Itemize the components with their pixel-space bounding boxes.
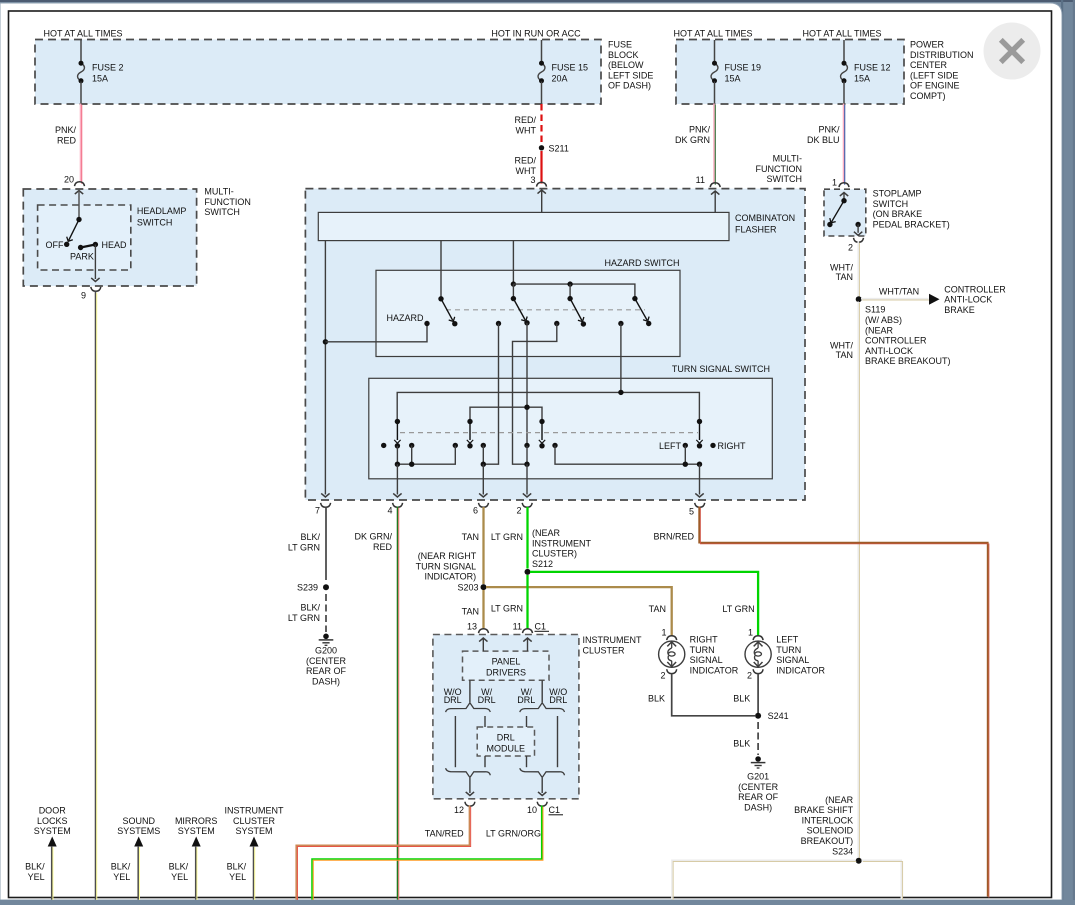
svg-text:HAZARD SWITCH: HAZARD SWITCH	[605, 258, 680, 268]
svg-text:C1: C1	[535, 622, 547, 632]
svg-text:TAN/RED: TAN/RED	[425, 829, 464, 839]
svg-text:SYSTEM: SYSTEM	[178, 826, 215, 836]
hazard pole 2 feed	[512, 241, 514, 285]
wire hazard contact to turn sw (x498)	[483, 324, 498, 465]
splice S212	[525, 569, 531, 575]
svg-text:BLK/: BLK/	[300, 532, 320, 542]
svg-text:20: 20	[64, 175, 74, 185]
hazard pole 4	[632, 296, 637, 301]
svg-text:BLK/: BLK/	[169, 862, 189, 872]
svg-text:15A: 15A	[725, 74, 741, 84]
svg-text:PNK/: PNK/	[818, 125, 840, 135]
turn sw bottom wire A	[396, 446, 398, 464]
svg-text:YEL: YEL	[113, 872, 130, 882]
svg-text:6: 6	[473, 506, 478, 516]
svg-text:WHT/TAN: WHT/TAN	[879, 287, 919, 297]
svg-text:OF ENGINE: OF ENGINE	[910, 81, 960, 91]
svg-text:FUSE: FUSE	[608, 40, 632, 50]
svg-text:INDICATOR: INDICATOR	[776, 665, 825, 675]
wire BLK S241 to G201 dashed	[757, 722, 759, 755]
branch wires	[454, 716, 456, 767]
svg-text:TAN: TAN	[836, 272, 853, 282]
turn sw top bus	[397, 392, 699, 421]
svg-text:DRIVERS: DRIVERS	[486, 668, 526, 678]
svg-text:LEFT: LEFT	[659, 441, 682, 451]
svg-text:REAR OF: REAR OF	[738, 792, 779, 802]
svg-text:DRL: DRL	[444, 695, 462, 705]
turn sw blade at x=397.4	[395, 419, 400, 424]
stoplamp switch box	[824, 189, 866, 236]
wire TAN/RED pin12 down-left	[296, 806, 469, 900]
svg-text:1: 1	[832, 178, 837, 188]
svg-text:OF DASH): OF DASH)	[608, 81, 651, 91]
connector pin 2	[522, 503, 532, 507]
svg-text:S241: S241	[768, 711, 789, 721]
wire LT GRN S212 to left turn signal indicator	[530, 572, 758, 636]
wire WHT/TAN stoplamp to S119	[857, 242, 859, 297]
svg-text:DRL: DRL	[549, 695, 567, 705]
svg-text:BLK: BLK	[648, 694, 665, 704]
svg-text:7: 7	[315, 506, 320, 516]
wire TAN pin6 to S203	[482, 507, 484, 584]
headlamp switch contacts	[75, 191, 83, 195]
svg-text:LT GRN: LT GRN	[491, 604, 523, 614]
svg-text:2: 2	[660, 671, 665, 681]
wire HEAD to pin 9	[94, 245, 96, 280]
stoplamp switch internals	[840, 193, 848, 197]
connector stoplamp pin 1	[839, 183, 849, 187]
left turn signal indicator lamp	[753, 636, 763, 640]
svg-text:2: 2	[848, 243, 853, 253]
svg-text:SIGNAL: SIGNAL	[776, 655, 809, 665]
svg-text:OFF: OFF	[46, 240, 64, 250]
svg-text:MULTI-: MULTI-	[204, 187, 233, 197]
svg-text:(CENTER: (CENTER	[306, 656, 346, 666]
svg-text:BLK/: BLK/	[227, 862, 247, 872]
svg-text:(ON BRAKE: (ON BRAKE	[873, 209, 923, 219]
svg-text:REAR OF: REAR OF	[306, 666, 347, 676]
svg-text:S234: S234	[832, 846, 853, 856]
connector pin 7	[321, 503, 331, 507]
turn sw contact row	[381, 443, 386, 448]
wire RED/WHT (fuse15 to splice S211) dashed	[540, 104, 542, 144]
svg-text:BRN/RED: BRN/RED	[653, 532, 694, 542]
headlamp switch box	[38, 205, 131, 270]
svg-text:DASH): DASH)	[744, 802, 772, 812]
svg-text:CLUSTER): CLUSTER)	[532, 549, 577, 559]
svg-text:CLUSTER: CLUSTER	[583, 645, 626, 655]
svg-text:4: 4	[387, 506, 392, 516]
svg-text:FUSE 2: FUSE 2	[92, 63, 124, 73]
fuse F15 20A	[541, 40, 543, 62]
splice S203	[481, 584, 487, 590]
svg-text:DASH): DASH)	[312, 676, 340, 686]
svg-text:BRAKE: BRAKE	[944, 305, 975, 315]
svg-text:CLUSTER: CLUSTER	[233, 816, 276, 826]
svg-text:(LEFT SIDE: (LEFT SIDE	[910, 70, 958, 80]
svg-text:HOT AT ALL TIMES: HOT AT ALL TIMES	[673, 29, 752, 39]
svg-text:(BELOW: (BELOW	[608, 60, 644, 70]
wire BLK/LT GRN S239 to G200 (dashed)	[325, 594, 327, 632]
svg-text:DK BLU: DK BLU	[807, 135, 840, 145]
svg-text:SWITCH: SWITCH	[204, 207, 240, 217]
right turn signal indicator lamp	[667, 636, 677, 640]
wire BLK right lamp to S241	[672, 674, 755, 716]
svg-text:13: 13	[467, 622, 477, 632]
wire pin3 to flasher	[538, 190, 546, 194]
multi-function switch box (main)	[305, 189, 805, 500]
wire TAN S203 to right turn signal indicator	[486, 587, 672, 636]
svg-text:RED/: RED/	[514, 156, 536, 166]
svg-text:SOUND: SOUND	[122, 816, 155, 826]
wire LT GRN S212 to cluster pin 11	[526, 575, 528, 629]
svg-text:SYSTEM: SYSTEM	[235, 826, 272, 836]
svg-text:1: 1	[748, 628, 753, 638]
svg-text:FUNCTION: FUNCTION	[756, 164, 803, 174]
stoplamp pin 2 exit	[857, 225, 859, 233]
connector pin 20	[75, 182, 85, 186]
svg-text:LT GRN: LT GRN	[288, 613, 320, 623]
wire PNK/DK BLU (fuse12 to stoplamp pin 1)	[843, 104, 845, 184]
svg-text:S203: S203	[457, 583, 478, 593]
svg-text:20A: 20A	[552, 74, 568, 84]
splice S241	[755, 713, 761, 719]
DRL module box	[477, 727, 534, 756]
svg-text:RIGHT: RIGHT	[718, 441, 747, 451]
wire BLK left lamp to S241	[757, 674, 759, 716]
svg-text:(W/ ABS): (W/ ABS)	[865, 315, 902, 325]
wire hazard blade2 contact down to turn row (x527)	[526, 323, 528, 446]
svg-text:SWITCH: SWITCH	[873, 199, 909, 209]
svg-text:DOOR: DOOR	[39, 806, 67, 816]
wire WHT/TAN S119 down to S234	[857, 302, 859, 858]
fuse F12 15A	[843, 40, 845, 62]
wire pin11 to flasher	[711, 191, 719, 195]
svg-text:BLK/: BLK/	[300, 603, 320, 613]
split brace right	[520, 703, 565, 712]
arrow to controller anti-lock brake	[929, 294, 940, 305]
svg-text:FUSE 15: FUSE 15	[552, 63, 589, 73]
svg-text:(NEAR: (NEAR	[865, 325, 894, 335]
svg-text:(NEAR RIGHT: (NEAR RIGHT	[418, 551, 477, 561]
ground G201	[755, 756, 761, 762]
svg-text:DRL: DRL	[517, 695, 535, 705]
wire flasher to pin 7 (left drop)	[324, 241, 326, 495]
svg-text:15A: 15A	[92, 74, 108, 84]
cluster output arrows	[469, 778, 471, 793]
turn sw blade at x=699.5	[697, 419, 702, 424]
output arrows to pins 4,6,2,5	[396, 464, 398, 494]
svg-text:CONTROLLER: CONTROLLER	[865, 336, 927, 346]
connector pin 11 C1	[523, 629, 533, 633]
svg-text:CENTER: CENTER	[910, 60, 948, 70]
hazard pole 2	[511, 296, 516, 301]
svg-text:BLK/: BLK/	[111, 862, 131, 872]
svg-text:DK GRN: DK GRN	[675, 135, 710, 145]
svg-text:FUSE 12: FUSE 12	[854, 63, 891, 73]
turn signal switch box	[369, 378, 773, 479]
instrument cluster box	[433, 635, 579, 799]
svg-text:INTERLOCK: INTERLOCK	[802, 815, 854, 825]
svg-text:PEDAL BRACKET): PEDAL BRACKET)	[873, 219, 950, 229]
turn sw bottom wire C	[526, 446, 528, 464]
wire LT GRN/ORG pin10 down-left	[312, 806, 542, 900]
merge brace right	[520, 768, 565, 777]
svg-text:RED/: RED/	[514, 115, 536, 125]
svg-text:BLK/: BLK/	[25, 862, 45, 872]
svg-text:FUNCTION: FUNCTION	[204, 197, 251, 207]
svg-text:RED: RED	[57, 135, 77, 145]
wire RED/WHT (S211 to pin 3)	[540, 151, 542, 184]
hazard pole 3	[567, 296, 572, 301]
svg-text:COMPT): COMPT)	[910, 91, 946, 101]
connector pin 4	[393, 503, 403, 507]
fuse F2 15A	[80, 40, 82, 62]
svg-text:12: 12	[454, 805, 464, 815]
svg-text:TURN: TURN	[776, 645, 801, 655]
svg-text:DRL: DRL	[497, 733, 515, 743]
svg-text:HOT AT ALL TIMES: HOT AT ALL TIMES	[802, 29, 881, 39]
svg-text:9: 9	[81, 291, 86, 301]
svg-text:TURN SIGNAL: TURN SIGNAL	[416, 561, 477, 571]
svg-text:INSTRUMENT: INSTRUMENT	[225, 806, 284, 816]
svg-text:SWITCH: SWITCH	[767, 174, 803, 184]
wire hazard contact to turn top bus (x620)	[620, 324, 622, 393]
svg-text:S119: S119	[865, 305, 885, 315]
HEAD contact and blade	[93, 242, 98, 247]
svg-text:BLK: BLK	[733, 739, 750, 749]
svg-text:STOPLAMP: STOPLAMP	[873, 189, 922, 199]
svg-text:INDICATOR: INDICATOR	[690, 665, 739, 675]
headlamp switch blade to OFF	[69, 220, 79, 241]
svg-text:LEFT: LEFT	[776, 635, 799, 645]
svg-text:1: 1	[661, 628, 666, 638]
hazard dashed throw line	[446, 309, 645, 311]
svg-text:POWER: POWER	[910, 40, 945, 50]
merge brace left	[446, 768, 491, 777]
svg-text:ANTI-LOCK: ANTI-LOCK	[865, 346, 913, 356]
panel drivers output stubs	[469, 680, 471, 702]
fuse block box	[35, 40, 601, 105]
cluster input arrows	[479, 638, 487, 642]
turn sw bottom wire B	[482, 445, 484, 464]
splice S119	[856, 296, 862, 302]
svg-text:PANEL: PANEL	[492, 657, 521, 667]
panel drivers box	[463, 651, 550, 680]
wire BRN/RED pin5 to right side	[699, 507, 988, 897]
connector pin 5	[695, 503, 705, 507]
svg-text:LT GRN: LT GRN	[722, 604, 754, 614]
connector pin 12	[465, 802, 475, 806]
svg-text:G201: G201	[747, 772, 769, 782]
svg-text:C1: C1	[549, 805, 561, 815]
wire TAN S203 to cluster pin 13	[482, 590, 484, 629]
svg-text:S212: S212	[532, 559, 553, 569]
power distribution center box	[676, 40, 904, 105]
svg-text:BLK: BLK	[733, 694, 750, 704]
hazard top bus	[513, 284, 635, 299]
svg-text:BLOCK: BLOCK	[608, 50, 639, 60]
svg-text:HOT IN RUN OR ACC: HOT IN RUN OR ACC	[491, 29, 581, 39]
svg-text:2: 2	[747, 671, 752, 681]
svg-text:RED: RED	[373, 542, 393, 552]
svg-text:SYSTEM: SYSTEM	[34, 826, 71, 836]
HAZARD contact	[424, 321, 429, 326]
svg-text:LT GRN: LT GRN	[288, 542, 320, 552]
connector pin 10 C1	[537, 802, 547, 806]
svg-text:(NEAR: (NEAR	[825, 795, 854, 805]
svg-text:HOT AT ALL TIMES: HOT AT ALL TIMES	[43, 29, 122, 39]
svg-text:LEFT SIDE: LEFT SIDE	[608, 70, 653, 80]
wire to HAZARD contact	[325, 325, 427, 342]
hazard throw contacts	[496, 321, 501, 326]
svg-text:COMBINATON: COMBINATON	[735, 213, 795, 223]
turn sw blade at x=470	[467, 419, 472, 424]
connector pin 11 (multi-function switch)	[710, 183, 720, 187]
svg-text:S211: S211	[549, 143, 569, 153]
svg-text:TAN: TAN	[836, 350, 853, 360]
svg-text:DRL: DRL	[478, 695, 496, 705]
svg-text:HAZARD: HAZARD	[386, 313, 424, 323]
svg-text:RIGHT: RIGHT	[690, 635, 719, 645]
svg-text:PARK: PARK	[70, 252, 94, 262]
wire WHT/TAN S234 branch left/right	[672, 860, 855, 899]
combination flasher box	[318, 212, 729, 240]
svg-text:YEL: YEL	[171, 872, 188, 882]
svg-text:LOCKS: LOCKS	[37, 816, 68, 826]
svg-text:MULTI-: MULTI-	[773, 154, 802, 164]
svg-text:11: 11	[513, 622, 522, 632]
svg-text:TURN SIGNAL SWITCH: TURN SIGNAL SWITCH	[672, 364, 770, 374]
svg-text:11: 11	[696, 175, 705, 185]
svg-text:SIGNAL: SIGNAL	[690, 655, 723, 665]
wire BLK/YEL (headlamp pin 9 down)	[95, 292, 97, 900]
close button	[984, 23, 1041, 80]
svg-text:WHT: WHT	[516, 125, 537, 135]
svg-text:FLASHER: FLASHER	[735, 225, 777, 235]
junction dot hazard branch	[323, 339, 328, 344]
ground G200	[323, 634, 329, 640]
svg-text:WHT/: WHT/	[830, 263, 853, 273]
svg-text:LT GRN: LT GRN	[491, 532, 523, 542]
svg-text:10: 10	[527, 805, 537, 815]
wire hazard contact jog (x556-512)	[513, 324, 557, 465]
svg-text:MIRRORS: MIRRORS	[175, 816, 218, 826]
svg-text:FUSE 19: FUSE 19	[725, 63, 762, 73]
wire DK GRN/RED pin4 down	[397, 507, 399, 900]
svg-text:(CENTER: (CENTER	[738, 782, 778, 792]
svg-text:TAN: TAN	[649, 604, 666, 614]
svg-text:BRAKE SHIFT: BRAKE SHIFT	[794, 805, 854, 815]
svg-text:TURN: TURN	[690, 645, 715, 655]
turn sw bracket bus	[470, 407, 542, 421]
hazard pole 1	[440, 241, 442, 299]
svg-text:HEADLAMP: HEADLAMP	[137, 206, 187, 216]
wire LT GRN pin2 to S212	[526, 507, 528, 569]
connector pin 6	[479, 503, 489, 507]
svg-text:PNK/: PNK/	[55, 125, 77, 135]
turn sw bottom wire D	[555, 445, 700, 464]
svg-text:3: 3	[530, 175, 535, 185]
svg-text:PNK/: PNK/	[689, 125, 711, 135]
connector pin 13	[479, 629, 489, 633]
svg-text:2: 2	[516, 506, 521, 516]
wire BLK/LT GRN pin7 to S239	[325, 507, 327, 580]
svg-text:ANTI-LOCK: ANTI-LOCK	[944, 295, 992, 305]
turn sw dashed throw line	[400, 432, 698, 434]
svg-text:G200: G200	[315, 646, 337, 656]
svg-text:YEL: YEL	[28, 872, 45, 882]
svg-text:WHT/: WHT/	[830, 341, 853, 351]
svg-text:5: 5	[689, 507, 694, 517]
fuse F19 15A	[714, 40, 716, 62]
svg-text:(NEAR: (NEAR	[532, 528, 561, 538]
svg-text:DISTRIBUTION: DISTRIBUTION	[910, 50, 974, 60]
svg-text:LT GRN/ORG: LT GRN/ORG	[486, 829, 541, 839]
svg-text:BREAKOUT): BREAKOUT)	[801, 836, 854, 846]
multi-function switch box (headlamp side)	[23, 189, 196, 286]
turn sw blade at x=542	[539, 419, 544, 424]
svg-text:CONTROLLER: CONTROLLER	[944, 284, 1006, 294]
svg-text:INSTRUMENT: INSTRUMENT	[532, 538, 591, 548]
svg-text:SWITCH: SWITCH	[137, 218, 173, 228]
splice S211	[539, 145, 544, 150]
svg-text:INDICATOR): INDICATOR)	[425, 572, 477, 582]
svg-text:YEL: YEL	[229, 872, 246, 882]
svg-text:HEAD: HEAD	[102, 240, 128, 250]
wire WHT/TAN S119 to controller anti-lock brake	[861, 298, 929, 300]
PARK contact	[78, 245, 83, 250]
svg-text:S239: S239	[297, 583, 318, 593]
wire PNK/RED (fuse2 to headlamp sw pin 20)	[80, 104, 82, 183]
hazard switch box	[376, 270, 680, 356]
DRL module output stubs	[484, 756, 486, 767]
svg-text:BRAKE BREAKOUT): BRAKE BREAKOUT)	[865, 356, 951, 366]
splice S234	[856, 858, 862, 864]
svg-text:MODULE: MODULE	[487, 744, 526, 754]
split brace left	[446, 703, 491, 712]
wire PNK/DK GRN (fuse19 to pin 11)	[713, 104, 715, 184]
connector pin 3	[537, 182, 547, 186]
svg-text:TAN: TAN	[462, 607, 479, 617]
svg-text:INSTRUMENT: INSTRUMENT	[583, 635, 642, 645]
splice S239	[323, 584, 329, 590]
svg-text:SOLENOID: SOLENOID	[807, 826, 854, 836]
svg-text:DK GRN/: DK GRN/	[354, 532, 392, 542]
svg-text:SYSTEMS: SYSTEMS	[117, 826, 160, 836]
svg-text:15A: 15A	[854, 74, 870, 84]
svg-text:TAN: TAN	[462, 532, 479, 542]
